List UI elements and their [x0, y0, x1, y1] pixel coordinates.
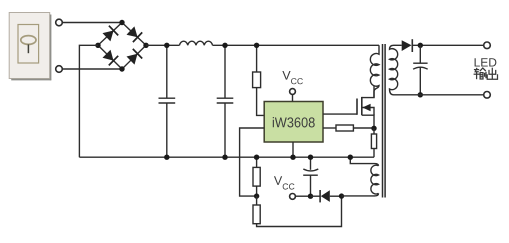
inductor L1: [180, 41, 213, 45]
Vcc terminal 1: [290, 89, 296, 102]
wire aux winding bottom: [342, 193, 379, 196]
capacitor C2: [217, 45, 234, 157]
AC outlet icon box: [9, 13, 51, 81]
Vcc label 2: [274, 176, 295, 189]
node bridge bottom: [119, 66, 124, 71]
resistor R1: [253, 45, 265, 115]
node C3 top on rail: [308, 155, 313, 160]
wire bridge minus to ground rail: [79, 45, 98, 157]
node C1 bottom: [164, 155, 169, 160]
LED output label: [475, 58, 497, 66]
node bridge top: [119, 20, 124, 25]
transformer T1 aux winding: [371, 165, 379, 194]
ground rail wire: [79, 156, 374, 158]
node R1 top: [254, 43, 259, 48]
node C4 bottom: [418, 92, 423, 97]
resistor R5: [371, 128, 376, 157]
node C2 top: [222, 43, 227, 48]
bridge diode D4: [127, 49, 143, 65]
LED output terminal top: [484, 42, 491, 49]
bridge diode D1: [103, 26, 119, 42]
MOSFET Q1: [323, 85, 374, 128]
bridge rectifier BR1: [98, 23, 146, 70]
wire top rail right segment: [213, 44, 380, 46]
node C1 top: [164, 43, 169, 48]
resistor R4: [323, 125, 374, 131]
node aux tap on rail: [348, 155, 353, 160]
Vcc terminal 2: [290, 194, 311, 200]
capacitor C4: [413, 45, 428, 95]
node IC ground on rail: [290, 155, 295, 160]
wire output top: [412, 44, 484, 46]
node feedback tap: [254, 193, 259, 198]
wire AC bottom to bridge: [62, 68, 122, 70]
node bridge left: [95, 43, 100, 48]
node output diode: [418, 43, 423, 48]
output diode D5: [394, 39, 413, 52]
capacitor C1: [159, 45, 176, 157]
diode D6: [311, 190, 342, 202]
IC U1 iW3608: [264, 102, 323, 143]
transformer T1 core: [383, 44, 386, 198]
wire aux winding top from rail: [350, 157, 378, 166]
node D6 anode / aux return: [339, 193, 344, 198]
wire IC pin2 to feedback tap: [240, 128, 265, 196]
node C2 bottom: [222, 155, 227, 160]
bridge diode D3: [103, 50, 119, 66]
LED output terminal bottom: [484, 92, 491, 99]
bridge diode D2: [127, 26, 143, 42]
wire output bottom: [394, 94, 484, 96]
resistor R3: [253, 196, 342, 227]
AC terminal bottom: [56, 66, 63, 73]
transformer T1 secondary winding: [390, 45, 398, 95]
label Chinese shuchu (output): [474, 68, 498, 80]
resistor R2: [253, 157, 260, 196]
node MOSFET source: [371, 126, 376, 131]
capacitor C3: [303, 157, 318, 196]
node C3 bottom: [308, 194, 313, 199]
Vcc label 1: [282, 71, 303, 84]
wire IC ground pin: [292, 142, 294, 157]
AC terminal top: [56, 19, 63, 26]
transformer T1 primary winding: [370, 45, 379, 97]
node R2 top on rail: [254, 155, 259, 160]
wire top rail left segment: [146, 44, 180, 46]
wire AC top to bridge: [62, 22, 122, 24]
node bridge right: [143, 43, 148, 48]
